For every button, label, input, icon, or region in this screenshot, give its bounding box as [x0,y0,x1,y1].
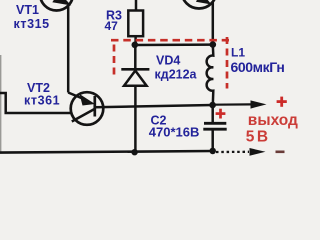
inductor L1 [207,45,214,105]
minus dash [276,151,285,154]
resistor R3 [135,0,138,11]
output dashed minus line [216,151,249,153]
wire VT3 emitter down to node B [212,3,215,46]
svg-text:470*16В: 470*16В [149,125,200,140]
svg-text:VD4: VD4 [156,54,180,68]
wire left step (input) [0,93,72,113]
VT2 emitter with arrow [68,93,86,101]
VT2 base bar [93,96,96,117]
svg-text:600мкГн: 600мкГн [231,59,285,75]
svg-text:выход: выход [248,112,298,129]
diode VD4 [134,45,137,69]
node A junction dot [132,42,139,49]
node E junction dot (C2 to rail) [209,148,216,155]
svg-text:кт361: кт361 [24,94,60,108]
page edge shadow [0,55,2,152]
transistor VT3 (top right, unlabeled) [182,0,217,9]
output arrow plus [213,103,251,105]
red dashed box [111,37,229,89]
wire VT1 emitter to VT2 [67,5,70,93]
svg-text:47: 47 [105,19,119,33]
svg-text:VT1: VT1 [16,3,39,17]
C2 plus sign [216,109,226,119]
plus sign output [277,97,287,107]
ground rail [0,151,213,153]
node D junction dot (diode to rail) [131,149,137,155]
transistor VT1 emitter arrow [54,0,69,4]
capacitor C2 [211,105,214,122]
wire node A to node B [135,43,213,46]
svg-text:5В: 5В [246,129,271,146]
transistor VT2 [71,92,104,125]
svg-text:кт315: кт315 [14,17,50,31]
wire VT2 base to node C [95,105,213,107]
node C junction dot [209,102,216,109]
VT2 collector [72,109,95,122]
node B junction dot [210,41,217,48]
svg-text:L1: L1 [231,46,245,60]
transistor VT1 [40,0,73,11]
svg-text:кд212а: кд212а [155,68,198,82]
transistor VT3 emitter arrow [198,0,210,3]
